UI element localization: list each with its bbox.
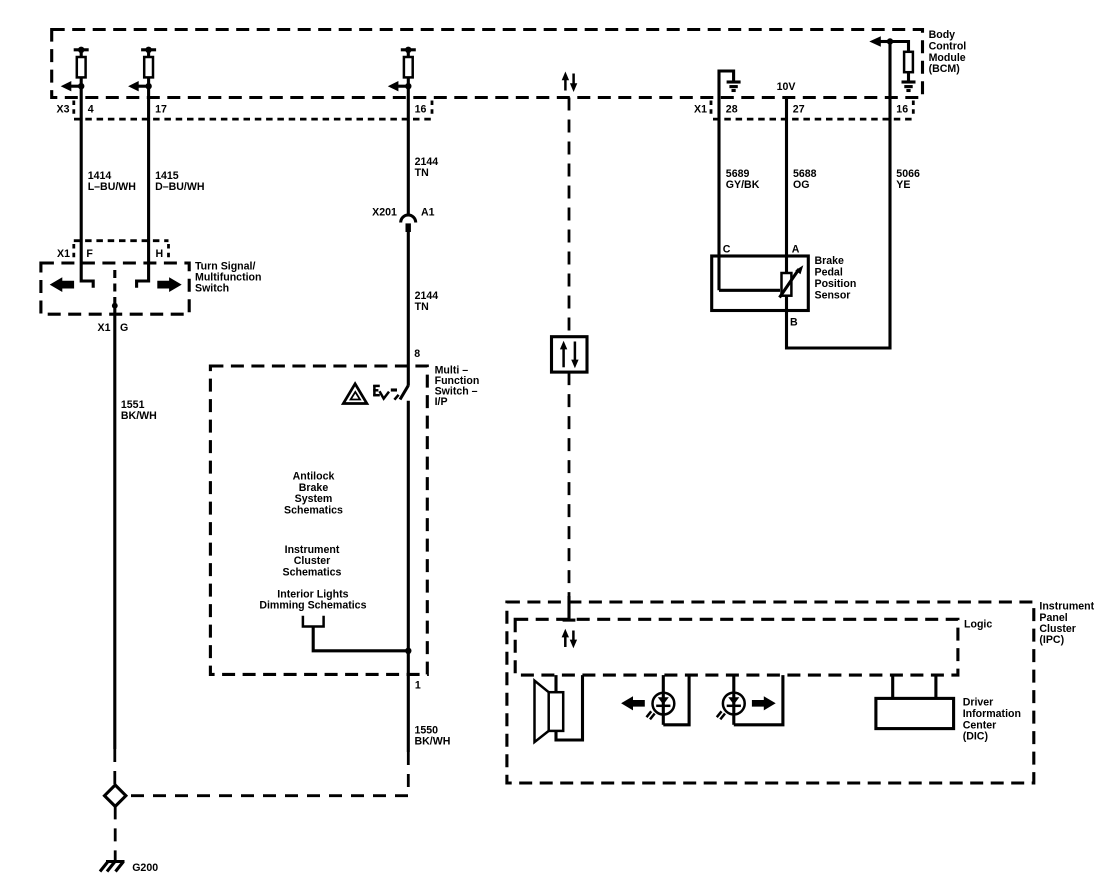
svg-text:A: A <box>792 244 800 256</box>
connector row X1 F H (turn signal switch) <box>57 241 168 260</box>
dashed wire diamond to G200 <box>114 806 117 860</box>
svg-text:BK/WH: BK/WH <box>121 410 157 422</box>
svg-text:F: F <box>86 248 93 260</box>
10V supply label (pin 27) <box>777 81 796 93</box>
Multifunction Switch I/P box <box>210 366 427 674</box>
right turn indicator arrow <box>157 277 181 292</box>
left turn indicator arrow <box>50 277 74 292</box>
svg-text:YE: YE <box>896 179 910 191</box>
serial data arrow box <box>552 337 588 372</box>
svg-text:10V: 10V <box>777 81 796 93</box>
svg-text:Brake: Brake <box>815 255 845 267</box>
svg-text:G: G <box>120 322 128 334</box>
svg-text:Driver: Driver <box>963 697 994 709</box>
off-page double arrow at BCM bottom <box>562 72 578 93</box>
svg-text:16: 16 <box>415 104 427 116</box>
svg-text:Cluster: Cluster <box>1039 623 1076 635</box>
svg-text:Control: Control <box>929 40 967 52</box>
BCM output driver (pin 17) <box>128 47 156 92</box>
dashed wire to splice diamond <box>113 749 116 785</box>
svg-text:X3: X3 <box>57 104 70 116</box>
dashed wire 1550 to splice <box>126 752 408 796</box>
svg-text:Module: Module <box>929 52 966 64</box>
svg-text:1415: 1415 <box>155 170 179 182</box>
svg-text:8: 8 <box>414 348 420 360</box>
wire 5689 (pin 28 to sensor C) <box>719 98 760 291</box>
svg-text:(BCM): (BCM) <box>929 63 960 75</box>
junction dot for schematics link <box>405 648 411 654</box>
svg-text:OG: OG <box>793 179 809 191</box>
svg-text:G200: G200 <box>132 862 158 874</box>
potentiometer inside sensor <box>719 265 803 297</box>
connector X1 G <box>98 322 129 334</box>
Interior Lights Dimming Schematics note <box>259 589 366 612</box>
BCM internal driver with ground (pin 16 right) <box>869 36 915 90</box>
svg-text:A1: A1 <box>421 207 435 219</box>
Instrument Panel Cluster box <box>507 602 1034 783</box>
BCM output driver (pin 4) <box>61 47 89 92</box>
svg-text:Schematics: Schematics <box>284 504 343 516</box>
chime speaker <box>535 675 583 742</box>
svg-text:Sensor: Sensor <box>815 289 851 301</box>
left indicator light rays <box>647 711 655 719</box>
Turn Signal/Multifunction Switch box <box>41 263 189 314</box>
svg-text:D–BU/WH: D–BU/WH <box>155 181 204 193</box>
wire 1414 (pin 4 to switch F) <box>81 86 136 288</box>
svg-text:TN: TN <box>415 167 429 179</box>
svg-text:BK/WH: BK/WH <box>415 735 451 747</box>
BCM internal ground (pin 28) <box>719 71 741 98</box>
connector row X1 (right) <box>694 101 913 120</box>
svg-text:X201: X201 <box>372 207 397 219</box>
right turn indicator lamp <box>723 675 783 725</box>
svg-text:X1: X1 <box>694 104 707 116</box>
svg-text:(IPC): (IPC) <box>1039 634 1064 646</box>
svg-text:17: 17 <box>155 104 167 116</box>
Logic box <box>515 619 958 675</box>
dashed off-page wire (BCM to arrow box) <box>568 98 571 337</box>
svg-text:Cluster: Cluster <box>294 555 331 567</box>
multifunction switch label <box>435 365 480 409</box>
schematics link bracket <box>303 616 408 651</box>
right indicator light rays <box>717 711 725 719</box>
wire 5688 (pin 27 to sensor A) <box>787 98 817 274</box>
DIC label <box>963 697 1021 743</box>
svg-text:1414: 1414 <box>88 170 112 182</box>
inline connector X201 A1 <box>372 207 435 233</box>
wire into IPC logic <box>563 596 576 620</box>
svg-text:Switch: Switch <box>195 283 229 295</box>
IPC label <box>1039 601 1094 647</box>
left indicator arrow <box>621 696 645 710</box>
svg-text:Instrument: Instrument <box>285 544 340 556</box>
switch common contact (dashed) with junction <box>112 270 118 309</box>
hazard switch linkage dashes <box>391 390 399 400</box>
Brake Pedal Position Sensor box <box>712 256 809 311</box>
svg-text:GY/BK: GY/BK <box>726 179 760 191</box>
wire 1550 label <box>415 725 451 748</box>
wire 2144 lower (X201 to hazard switch) <box>408 232 438 386</box>
wire 2144 upper (pin 16 to X201) <box>408 86 438 215</box>
sensor pin labels <box>723 244 800 329</box>
svg-text:X1: X1 <box>57 248 70 260</box>
svg-text:Brake: Brake <box>299 482 329 494</box>
hazard warning triangle <box>343 384 367 404</box>
svg-text:1: 1 <box>415 680 421 692</box>
Antilock Brake System Schematics note <box>284 471 343 517</box>
BCM label <box>929 29 967 75</box>
right indicator arrow <box>752 696 776 710</box>
svg-text:X1: X1 <box>98 322 111 334</box>
logic double arrow <box>562 629 578 649</box>
turn signal switch label <box>195 261 262 295</box>
svg-text:Logic: Logic <box>964 619 992 631</box>
svg-text:Position: Position <box>815 278 857 290</box>
svg-text:B: B <box>790 316 798 328</box>
svg-text:Dimming Schematics: Dimming Schematics <box>259 600 366 612</box>
svg-text:System: System <box>295 493 333 505</box>
wire 1415 (pin 17 to switch H) <box>137 86 205 288</box>
svg-text:27: 27 <box>793 104 805 116</box>
svg-text:Information: Information <box>963 708 1021 720</box>
sensor label <box>815 255 857 301</box>
svg-text:(DIC): (DIC) <box>963 731 988 743</box>
svg-text:C: C <box>723 244 731 256</box>
Driver Information Center <box>876 675 954 729</box>
svg-text:Schematics: Schematics <box>283 566 342 578</box>
svg-text:L–BU/WH: L–BU/WH <box>88 181 136 193</box>
hazard switch blade <box>400 386 408 400</box>
svg-text:Body: Body <box>929 29 956 41</box>
svg-text:TN: TN <box>415 301 429 313</box>
Body Control Module (BCM) box <box>52 30 923 98</box>
svg-text:Antilock: Antilock <box>293 471 335 483</box>
connector row X3 (left) <box>57 101 432 120</box>
ground G200 <box>100 862 158 875</box>
svg-text:H: H <box>156 248 164 260</box>
svg-text:I/P: I/P <box>435 396 448 408</box>
Instrument Cluster Schematics note <box>283 544 342 578</box>
splice diamond <box>105 785 126 806</box>
svg-text:4: 4 <box>88 104 94 116</box>
wire 5066 (pin 16 to sensor B) <box>787 42 920 349</box>
svg-text:Instrument: Instrument <box>1039 601 1094 613</box>
svg-text:28: 28 <box>726 104 738 116</box>
wire switch to pin 1 <box>407 401 410 752</box>
left turn indicator lamp <box>653 675 690 725</box>
svg-text:Center: Center <box>963 719 997 731</box>
hazard switch E-v symbol <box>373 385 389 399</box>
svg-text:Pedal: Pedal <box>815 267 843 279</box>
dashed off-page wire (arrow box to IPC) <box>568 372 571 596</box>
BCM output driver (pin 16 left) <box>388 47 416 92</box>
wire 1551 (switch G to splice) <box>115 306 157 749</box>
svg-text:16: 16 <box>896 104 908 116</box>
